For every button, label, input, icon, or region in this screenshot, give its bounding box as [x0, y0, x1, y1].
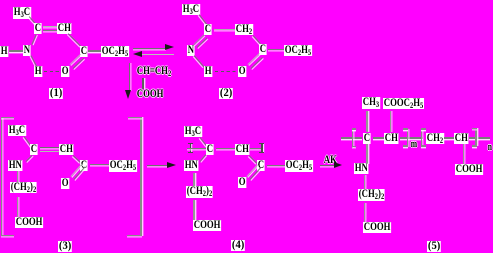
atom CH2 of (2) [235, 24, 253, 36]
label HN of (5) [354, 163, 369, 174]
atom O of (3) [61, 178, 69, 189]
double bond O=C line 2 of (4) [249, 167, 261, 179]
label CH=CH2 (acrylic acid) [136, 66, 172, 78]
bond N-H diagonal of (2) [194, 55, 205, 67]
bond (CH2)2-COOH vertical [17, 197, 18, 217]
atom C (ester C of 2) [259, 44, 267, 55]
label (CH2)2 of (3) [10, 182, 37, 194]
arrowhead right [167, 162, 176, 168]
double bond C=CH lower of (3) [40, 151, 59, 152]
bracket left [ of (3) [1, 117, 2, 236]
label (5) [427, 241, 441, 252]
arrowhead right of AK arrow [334, 162, 342, 168]
wire: half-bond into C of (4) [187, 148, 206, 149]
double bond C=CH (upper line) [43, 26, 58, 27]
arrowhead forward (right) [165, 44, 174, 50]
label H3C of (3) [8, 125, 26, 137]
atom C (ester C of 4) [257, 160, 265, 171]
bond CH-COOH vertical of (5) [463, 144, 464, 164]
bond CH-C diagonal [68, 33, 81, 46]
hydrogen bond H---O dashed [44, 71, 62, 73]
wire: arrow shaft [147, 165, 168, 166]
atom C (left) of (3) [30, 144, 38, 155]
bond C-HN vertical of (5) [366, 144, 367, 164]
label (CH2)2 of (4) [186, 186, 213, 198]
atom N of (1) [23, 45, 31, 56]
label AK [323, 155, 338, 166]
bond HN-(CH2)2 vertical of (4) [193, 173, 194, 187]
label HN of (4) [184, 160, 199, 171]
bond C-OC2H5 [88, 50, 101, 51]
wire: bond CH to bracket [400, 137, 423, 138]
bond C-OC2H5 of (2) [268, 49, 284, 50]
wire: downward arrow shaft [129, 63, 130, 91]
bond CH2-CH of (5) [444, 137, 455, 138]
bond C-CH of (5) [373, 137, 385, 138]
wire: chain bond into left bracket [341, 137, 362, 138]
label OC2H5 of (2) [284, 45, 312, 57]
atom C (backbone) of (4) [206, 144, 214, 155]
wire: equilibrium arrow forward shaft [133, 48, 166, 49]
atom O of (4) [238, 177, 246, 188]
bond N-C diagonal [31, 34, 37, 45]
atom N of (2) [187, 45, 195, 56]
label COOH of (3) [15, 217, 43, 228]
atom CH of (1) [57, 23, 72, 34]
label COOH right of (5) [455, 164, 483, 175]
double bond O=C line 1 [70, 54, 82, 65]
bond CH3-C vertical [366, 111, 367, 132]
atom CH of (3) [59, 144, 74, 155]
subscript m [410, 140, 418, 149]
double bond O=C line 1 of (2) [247, 53, 259, 65]
label (1) [49, 88, 63, 99]
atom O of (1) [61, 66, 69, 77]
double bond O=C line 2 of (3) [73, 167, 85, 180]
bond N-H diagonal [30, 55, 37, 67]
label H3C of (1) [13, 7, 31, 19]
wire: AK arrow shaft [320, 165, 335, 166]
atom H (O-H hydrogen bond) of (2) [204, 66, 212, 77]
bond C-N diagonal of (3) [25, 155, 32, 162]
double bond C=CH (lower line) [43, 30, 58, 31]
atom H (N-H hydrogen bond) of (1) [34, 66, 42, 77]
arrowhead reverse (left) [133, 51, 142, 57]
bond H3C-C diagonal of (3) [23, 136, 32, 147]
label COOH of (4) [193, 220, 221, 231]
label CH3 of (5) [362, 97, 380, 109]
subscript n [487, 143, 493, 152]
bond HN-(CH2)2 vertical [17, 171, 18, 182]
bond CH-C diagonal of (4) [249, 155, 258, 164]
label (CH2)2 of (5) [358, 189, 385, 201]
atom CH (backbone) of (4) [235, 144, 250, 155]
double bond C=CH upper of (3) [40, 147, 59, 148]
label H3C of (2) [182, 4, 200, 16]
bond H-N [9, 50, 23, 51]
hydrogen bond H---O dashed of (2) [215, 71, 238, 73]
wire: half-bond out of CH of (4) [250, 148, 264, 149]
bracket left of m-block [352, 129, 354, 148]
open bond mark left of (4) [190, 143, 191, 153]
atom C (ester C of 3) [80, 160, 88, 171]
bracket right ] of (3) [140, 117, 141, 236]
bond H3C-C diagonal [198, 14, 207, 25]
bond C-CH2 [214, 29, 235, 30]
bond COOC2H5-CH vertical [390, 111, 391, 132]
label COOC2H5 of (5) [383, 98, 424, 110]
double bond O=C line 2 of (2) [250, 57, 262, 69]
atom C (top-left of ring 1) [34, 23, 42, 34]
label OC2H5 of (3) [109, 160, 137, 172]
label HN of (3) [8, 160, 23, 171]
bracket left of n-block [421, 129, 423, 148]
atom CH (backbone n) of (5) [454, 133, 469, 144]
bond H3C-C diagonal [28, 16, 37, 26]
double bond O=C line 1 of (3) [70, 164, 82, 177]
bond C-OC2H5 of (3) [90, 164, 109, 165]
double bond N=C line 1 [193, 34, 204, 45]
bracket right of n-block [475, 128, 477, 147]
bracket right of m-block [407, 129, 409, 148]
atom C (ester C of 1) [80, 46, 88, 57]
bond (CH2)2-COOH vertical of (4) [193, 200, 194, 220]
bond (CH2)2-COOH vertical of (5) [364, 203, 365, 222]
label OC2H5 of (4) [285, 160, 313, 172]
arrowhead down [125, 90, 131, 99]
label (3) [58, 241, 72, 252]
wire: bond CH to n bracket and tail [469, 137, 490, 138]
bond HN-(CH2)2 vertical of (5) [364, 175, 365, 189]
open bond mark right of (4) [261, 143, 262, 153]
bond CH-COOH vertical [142, 78, 143, 89]
label COOH (acrylic acid) [136, 89, 164, 100]
bond C-CH of (4) [216, 148, 236, 149]
atom O of (2) [238, 66, 246, 77]
atom C (top) of (2) [204, 24, 212, 35]
bond CH2-C diagonal [252, 35, 261, 44]
bond C-OC2H5 of (4) [267, 165, 285, 166]
atom CH (backbone m) of (5) [384, 133, 399, 144]
atom C (backbone) of (5) [363, 133, 371, 144]
bond H3C-C diagonal of (4) [199, 137, 207, 147]
bond C-HN diagonal of (4) [199, 155, 206, 162]
double bond N=C line 2 [196, 37, 207, 48]
double bond O=C line 2 [73, 57, 85, 68]
label (2) [219, 88, 233, 99]
atom CH2 of (5) [426, 133, 444, 145]
label (4) [231, 240, 245, 251]
wire: equilibrium arrow reverse shaft [141, 54, 174, 56]
label COOH bottom of (5) [363, 222, 391, 233]
label OC2H5 of (1) [101, 46, 129, 58]
label H3C of (4) [184, 126, 202, 138]
label H on N [0, 46, 8, 57]
double bond O=C line 1 of (4) [246, 164, 258, 176]
bond CH-C diagonal of (3) [72, 155, 80, 163]
